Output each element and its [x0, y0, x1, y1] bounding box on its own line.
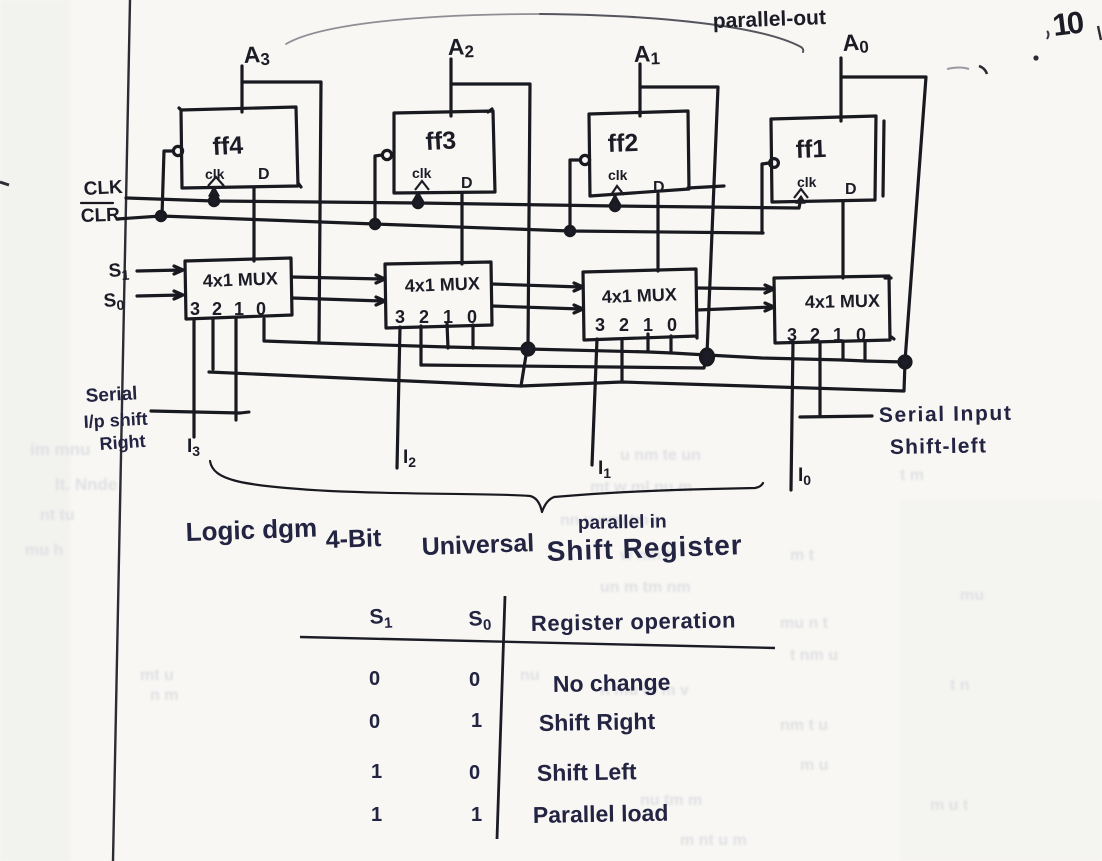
select wires U1 to U2	[292, 275, 385, 283]
svg-text:nt tu: nt tu	[40, 507, 75, 524]
svg-text:mu h: mu h	[25, 542, 63, 559]
svg-text:3 2 1 0: 3 2 1 0	[787, 325, 870, 345]
FF1 doubled right edge	[883, 121, 884, 196]
svg-text:Register operation: Register operation	[531, 607, 737, 636]
wire bubble FF4 to CLR	[162, 151, 173, 216]
junction CLK-FF3	[413, 198, 422, 207]
wire A1 feedback to U2 pin2	[421, 355, 707, 368]
svg-text:im mnu: im mnu	[30, 440, 90, 459]
svg-text:lt. Nnde: lt. Nnde	[55, 475, 117, 494]
CLR bus	[117, 216, 763, 233]
select S0 arrow into U1	[137, 291, 183, 299]
select wires U3 to U4	[697, 285, 774, 293]
svg-text:1: 1	[471, 804, 482, 826]
svg-text:CLR: CLR	[80, 205, 120, 227]
svg-text:parallel-out: parallel-out	[712, 6, 826, 33]
node A0 wire down into FF1	[839, 58, 842, 121]
svg-text:No change: No change	[553, 669, 671, 697]
svg-text:t n: t n	[950, 677, 970, 694]
svg-text:4x1 MUX: 4x1 MUX	[805, 291, 880, 312]
svg-text:u nm te un: u nm te un	[620, 447, 701, 464]
tick on serial right stub	[240, 412, 249, 413]
mux U3 box	[583, 269, 697, 340]
svg-text:m nt u m: m nt u m	[680, 832, 747, 849]
svg-text:parallel in: parallel in	[578, 511, 667, 534]
svg-text:Shift Right: Shift Right	[539, 708, 656, 736]
svg-text:3 2 1 0: 3 2 1 0	[595, 315, 682, 335]
svg-text:Right: Right	[99, 431, 146, 454]
small comma mark	[1047, 31, 1049, 39]
svg-text:Logic dgm: Logic dgm	[185, 512, 317, 547]
wire A1 branch over and down	[640, 87, 718, 354]
flip-flop FF2	[589, 111, 689, 196]
small dot right	[1033, 55, 1038, 60]
mux U3 pin1 stub	[646, 334, 649, 352]
wire A2 branch over and down	[451, 84, 530, 348]
svg-text:mt u: mt u	[140, 667, 174, 684]
select S1 arrow into U1	[137, 266, 183, 274]
svg-text:0: 0	[469, 669, 480, 691]
FF1 clk caret	[794, 189, 808, 198]
wire FF2 D to mux U3	[656, 194, 659, 271]
FF3 clk caret	[415, 181, 429, 190]
svg-text:clk: clk	[797, 174, 817, 190]
table header underline	[300, 637, 775, 648]
junction CLK-FF2	[610, 201, 619, 210]
svg-text:t nm u: t nm u	[790, 647, 838, 664]
svg-text:mu: mu	[960, 587, 984, 604]
svg-text:ff1: ff1	[795, 135, 827, 164]
svg-text:n m: n m	[150, 687, 178, 704]
wire FF2 clk pin	[613, 196, 616, 206]
node A2 wire down into FF3	[449, 59, 452, 116]
svg-text:D: D	[258, 166, 270, 183]
wire FF4 D to mux U1	[252, 188, 255, 261]
svg-text:4x1 MUX: 4x1 MUX	[404, 273, 480, 296]
svg-text:m u: m u	[800, 757, 828, 774]
main feedback rail wire	[264, 319, 905, 362]
mux U1 box	[185, 258, 292, 319]
svg-text:t m: t m	[900, 467, 924, 484]
node A3 wire down into FF4	[240, 66, 243, 112]
svg-text:un m tm nm: un m tm nm	[600, 579, 691, 596]
wire A2 feedback to U1 pin2	[209, 349, 527, 386]
wire FF3 D to mux U2	[460, 193, 463, 264]
svg-text:1: 1	[371, 804, 382, 826]
svg-text:0: 0	[369, 711, 380, 733]
svg-text:Serial: Serial	[85, 383, 138, 407]
svg-text:clk: clk	[608, 167, 628, 183]
wire bubble FF2 to CLR	[570, 160, 580, 231]
table column divider	[497, 596, 505, 839]
mux U4 pin1 stub	[841, 341, 844, 360]
svg-text:4x1 MUX: 4x1 MUX	[601, 284, 677, 307]
svg-text:4-Bit: 4-Bit	[325, 524, 382, 554]
tick at left edge	[0, 182, 9, 185]
svg-text:Shift-left: Shift-left	[890, 434, 988, 459]
wire I0 drop from U4 pin3	[791, 342, 793, 490]
svg-text:Serial Input: Serial Input	[879, 402, 1013, 427]
junction CLR-FF3	[370, 219, 379, 228]
junction node A2 rail	[522, 343, 534, 355]
mux U3 pin2 stub	[620, 339, 623, 381]
arrowhead FF2 clk	[610, 195, 620, 204]
FF2 clear bubble	[580, 155, 589, 164]
svg-text:Parallel load: Parallel load	[533, 800, 669, 828]
wire A0 return rail	[521, 362, 905, 391]
wire I2 drop from U2 pin3	[397, 327, 400, 468]
svg-text:ff2: ff2	[607, 129, 639, 158]
top brace parallel-out	[286, 14, 540, 44]
svg-text:3 2 1 0: 3 2 1 0	[395, 307, 482, 327]
svg-text:ff3: ff3	[425, 126, 457, 156]
svg-text:1: 1	[371, 761, 382, 783]
mux U2 pin1 stub	[447, 323, 448, 348]
wire bubble FF1 to CLR	[762, 163, 769, 233]
svg-text:ff4: ff4	[212, 131, 244, 161]
wire I1 drop from U3 pin3	[592, 339, 597, 465]
FF1 clear bubble	[770, 159, 779, 168]
flip-flop FF3	[394, 109, 495, 193]
svg-text:clk: clk	[412, 165, 432, 181]
svg-text:I/p shift: I/p shift	[83, 409, 148, 432]
wire FF2 corner overshoot	[688, 186, 724, 188]
svg-text:nu: nu	[520, 667, 540, 684]
junction node A1 rail	[701, 349, 714, 365]
svg-text:0: 0	[469, 762, 480, 784]
svg-text:mu n t: mu n t	[780, 615, 829, 632]
svg-text:3 2 1 0: 3 2 1 0	[190, 299, 270, 319]
svg-text:m t: m t	[790, 547, 815, 564]
svg-text:nm t u: nm t u	[780, 717, 828, 734]
mux U4 pin0 stub to node A0 rail	[863, 341, 866, 361]
arrowhead FF4 clk	[209, 187, 219, 196]
svg-text:4x1 MUX: 4x1 MUX	[202, 268, 278, 291]
wire A0 branch over and down	[841, 77, 926, 361]
bottom brace parallel-in	[210, 461, 763, 512]
notebook margin rule	[113, 0, 130, 861]
FF4 clk caret	[208, 177, 224, 186]
CLK arrowhead into FF1 clk	[796, 196, 805, 203]
wire FF4 clk pin	[212, 188, 215, 201]
node A1 wire down into FF2	[638, 64, 641, 116]
wire FF3 clk pin	[416, 193, 419, 203]
flip-flop FF4	[179, 107, 301, 188]
mux U1 pin1 stub to serial right	[151, 319, 240, 420]
wire A3 branch over and down	[242, 82, 321, 343]
mux U2 pin2 stub	[419, 326, 422, 365]
junction CLR-FF4	[156, 211, 165, 220]
FF2 clk caret	[611, 186, 624, 195]
junction CLR-FF2	[565, 226, 574, 235]
mux U2 pin0 stub	[471, 325, 474, 348]
mux U4 box	[774, 276, 894, 343]
wire I3 drop from U1 pin3	[192, 319, 195, 437]
svg-text:Shift Left: Shift Left	[537, 758, 637, 786]
mux U2 box	[385, 262, 492, 328]
mux U4 pin2 stub to serial left	[800, 342, 872, 417]
mux U3 pin0 stub	[669, 336, 672, 353]
flip-flop FF1	[771, 116, 876, 202]
svg-text:D: D	[653, 179, 665, 196]
mux U1 pin2 stub	[211, 319, 214, 369]
svg-text:0: 0	[369, 668, 380, 690]
small pen tick top right	[947, 68, 969, 70]
svg-text:Universal: Universal	[421, 529, 534, 561]
junction CLK-FF4	[209, 196, 218, 205]
FF4 clear bubble	[173, 146, 182, 155]
svg-text:1: 1	[471, 710, 482, 732]
select wires U2 to U3	[492, 283, 583, 291]
junction node A0 rail	[899, 356, 911, 368]
CLK bus	[126, 198, 801, 208]
svg-text:D: D	[461, 175, 473, 192]
FF3 clear bubble	[382, 150, 391, 159]
wire FF1 D to mux U4	[841, 202, 844, 278]
wire bubble FF3 to CLR	[375, 155, 382, 224]
svg-text:CLK: CLK	[83, 177, 123, 200]
svg-text:D: D	[845, 181, 857, 198]
svg-text:m u t: m u t	[930, 797, 969, 814]
arrowhead FF3 clk	[413, 192, 423, 201]
CLR overline	[81, 202, 113, 204]
